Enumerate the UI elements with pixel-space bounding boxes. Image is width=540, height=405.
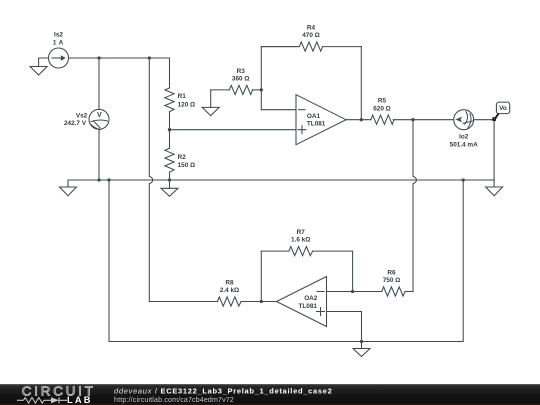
svg-text:R1: R1 bbox=[178, 93, 187, 100]
svg-text:1 A: 1 A bbox=[53, 39, 64, 46]
svg-text:Io2: Io2 bbox=[459, 133, 469, 140]
svg-text:TL081: TL081 bbox=[307, 120, 326, 127]
svg-text:1.6 kΩ: 1.6 kΩ bbox=[291, 237, 310, 244]
svg-text:501.4 mA: 501.4 mA bbox=[450, 141, 478, 148]
svg-text:V: V bbox=[97, 112, 102, 119]
svg-text:OA2: OA2 bbox=[304, 295, 318, 302]
svg-text:R3: R3 bbox=[237, 68, 246, 75]
svg-text:ddeveaux / ECE3122_Lab3_Prelab: ddeveaux / ECE3122_Lab3_Prelab_1_detaile… bbox=[114, 387, 332, 396]
svg-text:470 Ω: 470 Ω bbox=[302, 32, 320, 39]
svg-text:750 Ω: 750 Ω bbox=[383, 277, 401, 284]
svg-text:R4: R4 bbox=[307, 25, 316, 32]
svg-text:R2: R2 bbox=[178, 154, 187, 161]
svg-text:LAB: LAB bbox=[67, 395, 93, 405]
svg-text:2.4 kΩ: 2.4 kΩ bbox=[220, 287, 239, 294]
svg-text:R8: R8 bbox=[225, 279, 234, 286]
svg-text:360 Ω: 360 Ω bbox=[232, 76, 250, 83]
svg-text:150 Ω: 150 Ω bbox=[178, 162, 196, 169]
svg-text:Vs2: Vs2 bbox=[76, 112, 88, 119]
svg-text:OA1: OA1 bbox=[307, 113, 321, 120]
svg-text:120 Ω: 120 Ω bbox=[178, 101, 196, 108]
svg-text:R5: R5 bbox=[378, 98, 387, 105]
svg-text:Vo: Vo bbox=[499, 105, 507, 112]
svg-text:TL081: TL081 bbox=[299, 303, 318, 310]
svg-text:http://circuitlab.com/ca7cb4ed: http://circuitlab.com/ca7cb4edm7v72 bbox=[114, 397, 234, 404]
svg-text:620 Ω: 620 Ω bbox=[373, 105, 391, 112]
svg-text:242.7 V: 242.7 V bbox=[64, 120, 87, 127]
svg-text:Is2: Is2 bbox=[54, 32, 63, 39]
svg-text:R7: R7 bbox=[297, 229, 306, 236]
svg-text:R6: R6 bbox=[387, 270, 396, 277]
